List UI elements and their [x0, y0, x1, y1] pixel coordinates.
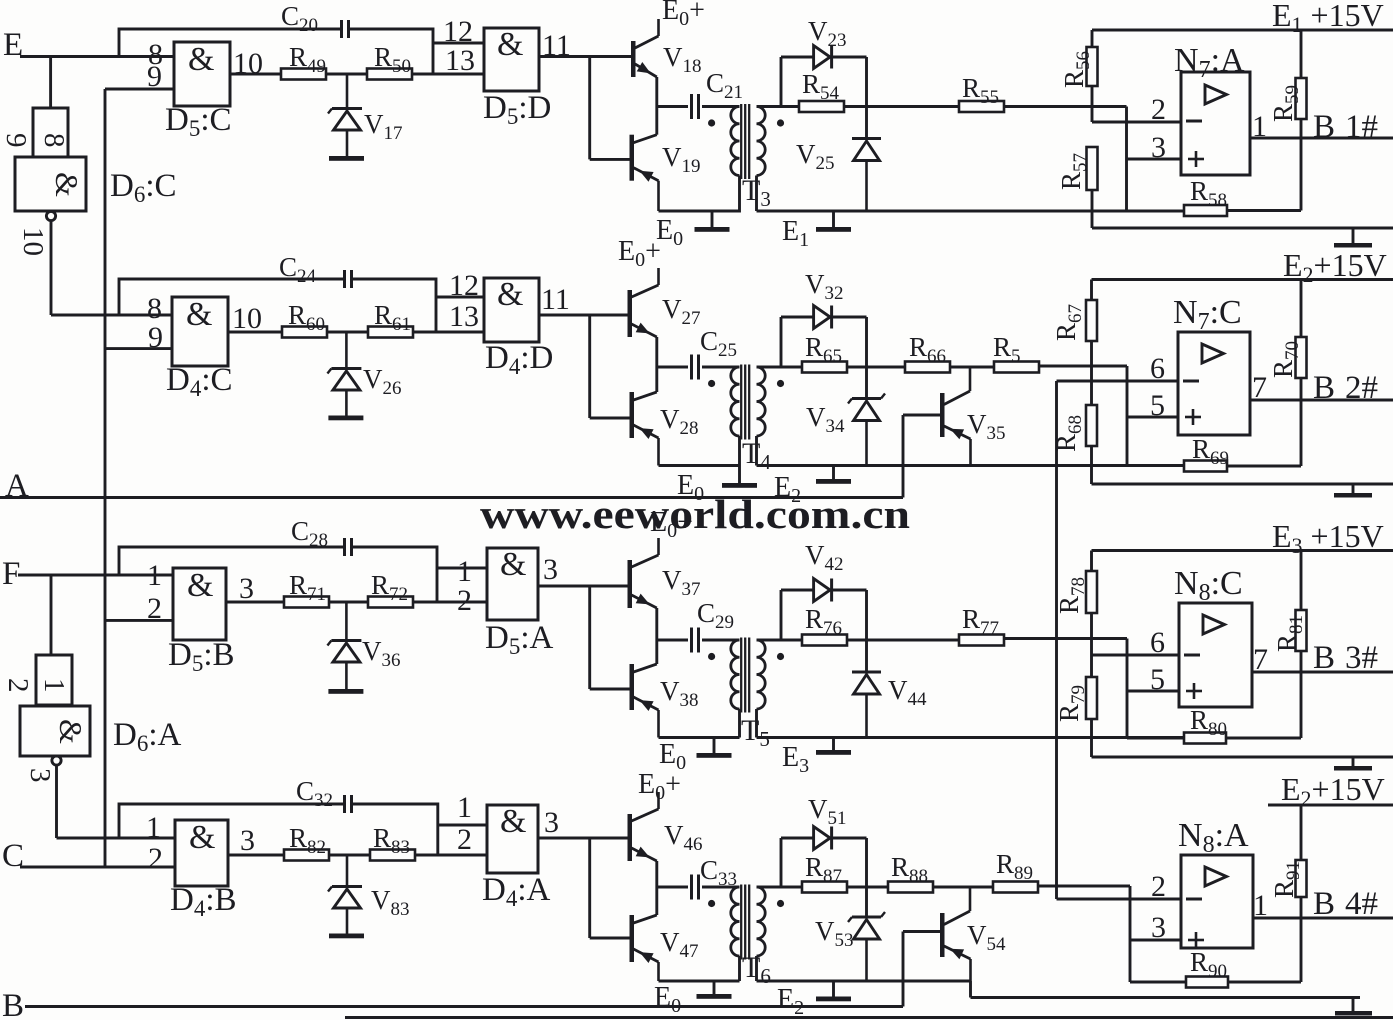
wire loop left: [780, 57, 783, 107]
pin 2 label: [148, 842, 163, 875]
svg-text:B: B: [2, 988, 24, 1020]
resistor R77: [959, 604, 1004, 646]
wire gate1 output: [228, 302, 282, 335]
svg-text:R65: R65: [805, 332, 842, 367]
svg-text:R58: R58: [1190, 176, 1227, 211]
pin12 label: [443, 15, 473, 48]
ground E0: [659, 739, 732, 774]
nand gate D6:C: [15, 157, 86, 211]
svg-text:&: &: [497, 26, 523, 63]
wire opamp2 ground rail: [1092, 483, 1393, 486]
wire pin12 stub: [436, 296, 484, 299]
power label E0+: [638, 769, 681, 804]
svg-text:B: B: [1313, 370, 1335, 406]
wire gate2 to base: [538, 585, 628, 588]
wire bottom bus: [757, 210, 1185, 213]
capacitor C25: [657, 326, 740, 380]
gate2 output label: [542, 29, 571, 62]
wire D6A out to pin1: [57, 837, 176, 840]
label D6:A: [113, 717, 182, 756]
wire pin12 stub: [433, 42, 484, 45]
wire bottom bus: [757, 464, 1185, 467]
pin 1 label: [147, 559, 162, 592]
resistor R65: [781, 332, 847, 373]
wire between resistors: [326, 73, 367, 76]
svg-text:&: &: [53, 719, 89, 744]
watermark: [480, 491, 910, 537]
pin13 label: [445, 44, 475, 77]
svg-text:3: 3: [1151, 131, 1166, 164]
resistor R88: [888, 852, 933, 893]
resistor R82: [284, 823, 329, 861]
wire primary bottom: [714, 709, 740, 753]
wire pin3 line: [1130, 911, 1181, 944]
svg-text:12: 12: [449, 269, 479, 302]
ground: [1334, 228, 1372, 248]
svg-text:V18: V18: [663, 42, 702, 77]
ground: [1334, 484, 1372, 498]
wire node A line: [0, 496, 903, 499]
svg-text:&: &: [189, 819, 215, 856]
svg-text:B: B: [1313, 640, 1335, 676]
ground E0: [656, 215, 730, 250]
wire between resistors: [329, 601, 368, 604]
gate label: [168, 637, 235, 676]
wire secondary top: [757, 105, 782, 108]
wire after snubber: [847, 639, 959, 642]
wire base: [903, 930, 940, 933]
nand gate D4:B: [175, 819, 228, 886]
wire signal down: [1126, 639, 1129, 739]
wire to gate2: [413, 601, 487, 604]
svg-text:R91: R91: [1269, 861, 1304, 898]
power rail E2 +15V: [1268, 771, 1393, 811]
wire node B line: [25, 1005, 903, 1008]
diode V34: [806, 394, 885, 466]
svg-text:D6:C: D6:C: [110, 168, 177, 207]
node F label: [2, 556, 20, 592]
svg-text:D4:D: D4:D: [485, 340, 553, 379]
wire D6:C output: [50, 221, 53, 315]
svg-text:V25: V25: [796, 139, 835, 174]
transformer T6: [708, 885, 784, 989]
gate2 label: [485, 340, 553, 379]
resistor R71: [284, 570, 329, 608]
wire to lower base: [590, 937, 630, 940]
svg-text:2: 2: [457, 584, 472, 617]
nand gate D5:D: [484, 26, 539, 91]
wire feedback top: [119, 279, 345, 315]
svg-text:V42: V42: [805, 540, 844, 575]
output label B 4#: [1313, 886, 1378, 922]
svg-text:C25: C25: [700, 326, 737, 361]
resistor R55: [959, 73, 1004, 112]
svg-text:&: &: [187, 567, 213, 604]
pin 9 label: [147, 60, 162, 93]
svg-text:3#: 3#: [1345, 640, 1378, 676]
wire after snubber: [847, 886, 888, 889]
diode V53: [815, 912, 885, 981]
wire primary bottom: [714, 956, 740, 994]
svg-text:R70: R70: [1268, 341, 1303, 378]
transistor V18: [631, 19, 702, 77]
transistor V54: [940, 887, 1006, 981]
ground E-sec: [777, 984, 851, 1019]
svg-text:R71: R71: [289, 570, 326, 605]
svg-text:R61: R61: [374, 300, 411, 335]
svg-text:R56: R56: [1059, 51, 1094, 88]
wire primary bottom: [738, 436, 741, 483]
svg-text:R81: R81: [1272, 615, 1307, 652]
diode V32: [781, 269, 867, 329]
resistor R49: [281, 42, 326, 80]
resistor R70: [1268, 280, 1307, 401]
wire secondary bottom: [755, 436, 758, 466]
wire to gate2: [415, 854, 487, 857]
svg-text:V54: V54: [967, 920, 1006, 955]
resistor R72: [368, 570, 413, 608]
wire pin12 stub: [438, 824, 487, 827]
svg-text:3: 3: [543, 553, 558, 586]
resistor R76: [781, 604, 847, 646]
svg-text:C29: C29: [697, 598, 734, 633]
svg-text:R77: R77: [962, 604, 999, 639]
pin13 label: [457, 584, 472, 617]
wire signal down: [1129, 886, 1132, 982]
svg-text:R67: R67: [1051, 304, 1086, 341]
wire base to control line: [902, 415, 905, 498]
svg-text:3: 3: [544, 806, 559, 839]
ground E0: [677, 470, 757, 505]
transistor V35: [940, 367, 1006, 466]
svg-text:V44: V44: [888, 675, 927, 710]
svg-text:13: 13: [445, 44, 475, 77]
power rail E2 +15V: [1092, 247, 1393, 287]
wire feedback top: [119, 547, 345, 575]
ground: [1335, 998, 1372, 1016]
resistor R50: [367, 42, 412, 80]
wire loop left: [780, 317, 783, 367]
output label B 2#: [1313, 370, 1378, 406]
wire common rail: [104, 89, 107, 867]
svg-text:9: 9: [0, 133, 32, 148]
nand gate D5:A: [487, 546, 538, 620]
diode V51: [781, 794, 867, 850]
transistor V27: [628, 268, 701, 337]
transistor V37: [628, 538, 701, 608]
svg-text:3: 3: [24, 768, 56, 783]
wire bottom bus: [757, 736, 1185, 739]
wire output 7: [1250, 371, 1393, 404]
wire to lower base: [590, 417, 630, 420]
svg-text:V35: V35: [967, 409, 1006, 444]
svg-text:D4:B: D4:B: [170, 882, 237, 921]
wire primary bottom: [712, 176, 740, 228]
resistor R91: [1269, 805, 1307, 918]
pin 9 label: [148, 321, 163, 354]
inverter bubble D6:C pin 10: [46, 211, 55, 220]
wire C input: [20, 866, 175, 869]
svg-text:V23: V23: [808, 16, 847, 51]
svg-text:R76: R76: [805, 604, 842, 639]
op-amp N7:C: [1173, 294, 1250, 435]
resistor R60: [282, 300, 327, 338]
svg-text:V46: V46: [664, 820, 703, 855]
ground: [1334, 757, 1372, 771]
svg-text:E1 +15V: E1 +15V: [1272, 0, 1384, 37]
svg-text:1: 1: [147, 559, 162, 592]
svg-text:R50: R50: [374, 42, 411, 77]
svg-text:N7:A: N7:A: [1174, 42, 1245, 83]
transistor V47: [630, 915, 699, 981]
svg-text:1: 1: [1253, 889, 1268, 922]
svg-text:R49: R49: [289, 42, 326, 77]
svg-text:R66: R66: [909, 332, 946, 367]
node C label: [2, 838, 24, 874]
wire pin5 line: [1127, 389, 1178, 422]
transformer T4: [708, 365, 784, 475]
pin 2 label: [147, 592, 162, 625]
svg-text:V83: V83: [371, 885, 410, 920]
nand gate D6:A: [20, 706, 90, 756]
resistor R80: [1127, 672, 1301, 744]
wire to opamp line: [1004, 637, 1127, 640]
wire E-sec ground stem: [832, 981, 835, 997]
wire to lower base: [590, 688, 630, 691]
wire pin2 line: [1092, 93, 1181, 126]
power label E0+: [618, 236, 661, 271]
svg-text:R80: R80: [1190, 705, 1227, 740]
wire output 7: [1252, 643, 1393, 676]
nand gate D6:C input box: [0, 108, 70, 157]
wire rail to pin9: [105, 347, 172, 350]
wire gate2 to base: [538, 837, 628, 840]
wire E to D6:C: [49, 57, 52, 109]
wire to extra resistor: [950, 366, 994, 369]
wire secondary top: [757, 639, 782, 642]
wire E-sec ground stem: [832, 466, 835, 480]
wire feedback top: [119, 29, 342, 57]
wire signal down: [1125, 107, 1128, 211]
nand gate D4:C: [172, 296, 228, 366]
svg-text:3: 3: [239, 572, 254, 605]
svg-text:C33: C33: [700, 855, 737, 890]
wire bottom line: [345, 1016, 1393, 1019]
wire pin2 line: [1057, 870, 1182, 903]
wire emitter to ground: [659, 210, 740, 213]
diode V36: [327, 602, 400, 689]
transistor V19: [630, 135, 701, 211]
svg-text:V26: V26: [363, 364, 402, 399]
wire gate2 to base: [539, 314, 628, 317]
ground E-sec: [774, 472, 851, 507]
svg-text:&: &: [186, 296, 212, 333]
wire loop right: [865, 590, 868, 672]
ground E0: [654, 982, 732, 1017]
wire push-pull mid: [655, 608, 658, 664]
svg-text:C: C: [2, 838, 24, 874]
svg-text:E0: E0: [677, 470, 704, 505]
wire pin6 line: [1057, 352, 1179, 385]
svg-text:E2+15V: E2+15V: [1283, 247, 1387, 287]
wire opamp3 ground rail: [1092, 756, 1393, 759]
svg-text:V28: V28: [660, 404, 699, 439]
diode V23: [781, 16, 867, 69]
svg-text:3: 3: [240, 824, 255, 857]
resistor R79: [1054, 677, 1097, 757]
diode V42: [781, 540, 867, 602]
svg-text:E2: E2: [777, 984, 804, 1019]
wire D6:A output: [55, 765, 58, 838]
pin12 label: [457, 555, 472, 588]
node E label: [3, 27, 23, 63]
svg-text:D5:C: D5:C: [165, 102, 232, 141]
svg-text:R83: R83: [373, 823, 410, 858]
wire output 1: [1253, 889, 1393, 922]
wire to gate2: [413, 331, 484, 334]
pin 8 label: [147, 292, 162, 325]
wire to opamp line: [1004, 105, 1127, 108]
resistor R54: [781, 69, 844, 112]
label D6:C: [110, 168, 177, 207]
wire signal down: [1126, 366, 1129, 466]
wire emitter to ground: [659, 980, 740, 983]
svg-text:V47: V47: [660, 927, 699, 962]
diode V44: [852, 672, 927, 738]
svg-text:R59: R59: [1268, 85, 1303, 122]
wire to lower base: [590, 158, 630, 161]
op-amp N7:A: [1174, 42, 1250, 175]
wire opamp4 ground rail: [971, 981, 1361, 998]
wire feedback bus: [1055, 381, 1058, 899]
wire push-pull mid: [655, 337, 658, 392]
resistor R69: [1184, 400, 1301, 472]
svg-text:E0: E0: [654, 982, 681, 1017]
nand gate D4:A: [487, 803, 538, 873]
svg-text:13: 13: [449, 300, 479, 333]
wire secondary top: [757, 886, 782, 889]
wire gate1 output: [228, 824, 284, 857]
svg-text:R54: R54: [802, 69, 840, 104]
svg-text:E3: E3: [782, 742, 809, 777]
power rail E3 +15V: [1092, 518, 1393, 558]
nand gate D6:A input box: [2, 655, 72, 705]
svg-text:&: &: [500, 546, 526, 583]
svg-text:1: 1: [38, 678, 70, 693]
svg-text:R79: R79: [1054, 685, 1089, 722]
resistor R57: [1056, 147, 1098, 228]
wire secondary bottom: [755, 956, 758, 981]
wire to opamp line: [1039, 365, 1127, 368]
svg-text:4#: 4#: [1345, 886, 1378, 922]
svg-text:E1: E1: [782, 216, 809, 251]
node B label: [2, 988, 24, 1020]
svg-text:&: &: [497, 276, 523, 313]
ground: [328, 689, 363, 694]
power label E0+: [650, 507, 693, 542]
svg-text:D4:A: D4:A: [482, 872, 551, 911]
resistor R87: [781, 852, 847, 893]
svg-text:V37: V37: [662, 565, 701, 600]
svg-text:C21: C21: [706, 68, 743, 103]
pin 8 label: [148, 38, 163, 71]
svg-text:N8:A: N8:A: [1178, 817, 1249, 858]
svg-text:R82: R82: [289, 823, 326, 858]
pin12 label: [457, 791, 472, 824]
capacitor C32: [296, 776, 352, 813]
pin12 label: [449, 269, 479, 302]
svg-text:R5: R5: [993, 332, 1021, 367]
svg-text:D4:C: D4:C: [166, 362, 233, 401]
transistor V38: [630, 664, 699, 738]
svg-text:E0+: E0+: [662, 0, 705, 30]
svg-text:R78: R78: [1054, 577, 1089, 614]
svg-text:V34: V34: [806, 402, 845, 437]
svg-text:V51: V51: [808, 794, 847, 829]
svg-text:R90: R90: [1190, 947, 1227, 982]
wire pin6 line: [1092, 626, 1180, 659]
wire D6C out to pin8: [51, 314, 172, 317]
svg-text:7: 7: [1252, 371, 1267, 404]
diode V26: [327, 332, 401, 416]
svg-text:2#: 2#: [1345, 370, 1378, 406]
wire after snubber: [844, 105, 959, 108]
gate label: [165, 102, 232, 141]
wire F input: [18, 574, 173, 577]
svg-text:&: &: [500, 803, 526, 840]
resistor R59: [1268, 30, 1307, 138]
svg-text:R57: R57: [1056, 153, 1091, 190]
node A label: [5, 468, 29, 504]
svg-text:V19: V19: [662, 142, 701, 177]
svg-text:B: B: [1313, 886, 1335, 922]
svg-text:5: 5: [1150, 663, 1165, 696]
transistor V46: [628, 792, 703, 861]
wire E to pin8: [105, 88, 174, 91]
svg-text:2: 2: [1151, 93, 1166, 126]
svg-text:R87: R87: [805, 852, 842, 887]
gate label: [166, 362, 233, 401]
diode V17: [328, 74, 403, 156]
wire F to D6:A: [50, 575, 53, 655]
svg-text:C32: C32: [296, 776, 333, 811]
wire loop right: [865, 317, 868, 399]
svg-text:2: 2: [457, 823, 472, 856]
power label E0+: [662, 0, 705, 30]
transformer T3: [708, 104, 784, 211]
wire pin5 line: [1127, 663, 1179, 696]
svg-text:1: 1: [1252, 110, 1267, 143]
svg-text:B: B: [1313, 109, 1335, 145]
diode V25: [796, 139, 881, 212]
svg-text:V32: V32: [805, 269, 844, 304]
gate2 label: [485, 620, 554, 659]
pin 3 label D6:A: [24, 768, 56, 783]
resistor R58: [1184, 138, 1301, 216]
resistor R89: [993, 849, 1038, 893]
gate label: [170, 882, 237, 921]
svg-text:&: &: [49, 172, 85, 197]
resistor R67: [1051, 280, 1097, 406]
gate2 output label: [544, 806, 559, 839]
pin 10 label D6:C: [17, 227, 49, 256]
ground: [328, 416, 363, 421]
wire loop right: [865, 57, 868, 139]
wire gate1 output: [230, 47, 281, 80]
wire pin3 line: [1127, 131, 1182, 164]
pin13 label: [449, 300, 479, 333]
svg-text:R55: R55: [962, 73, 999, 108]
